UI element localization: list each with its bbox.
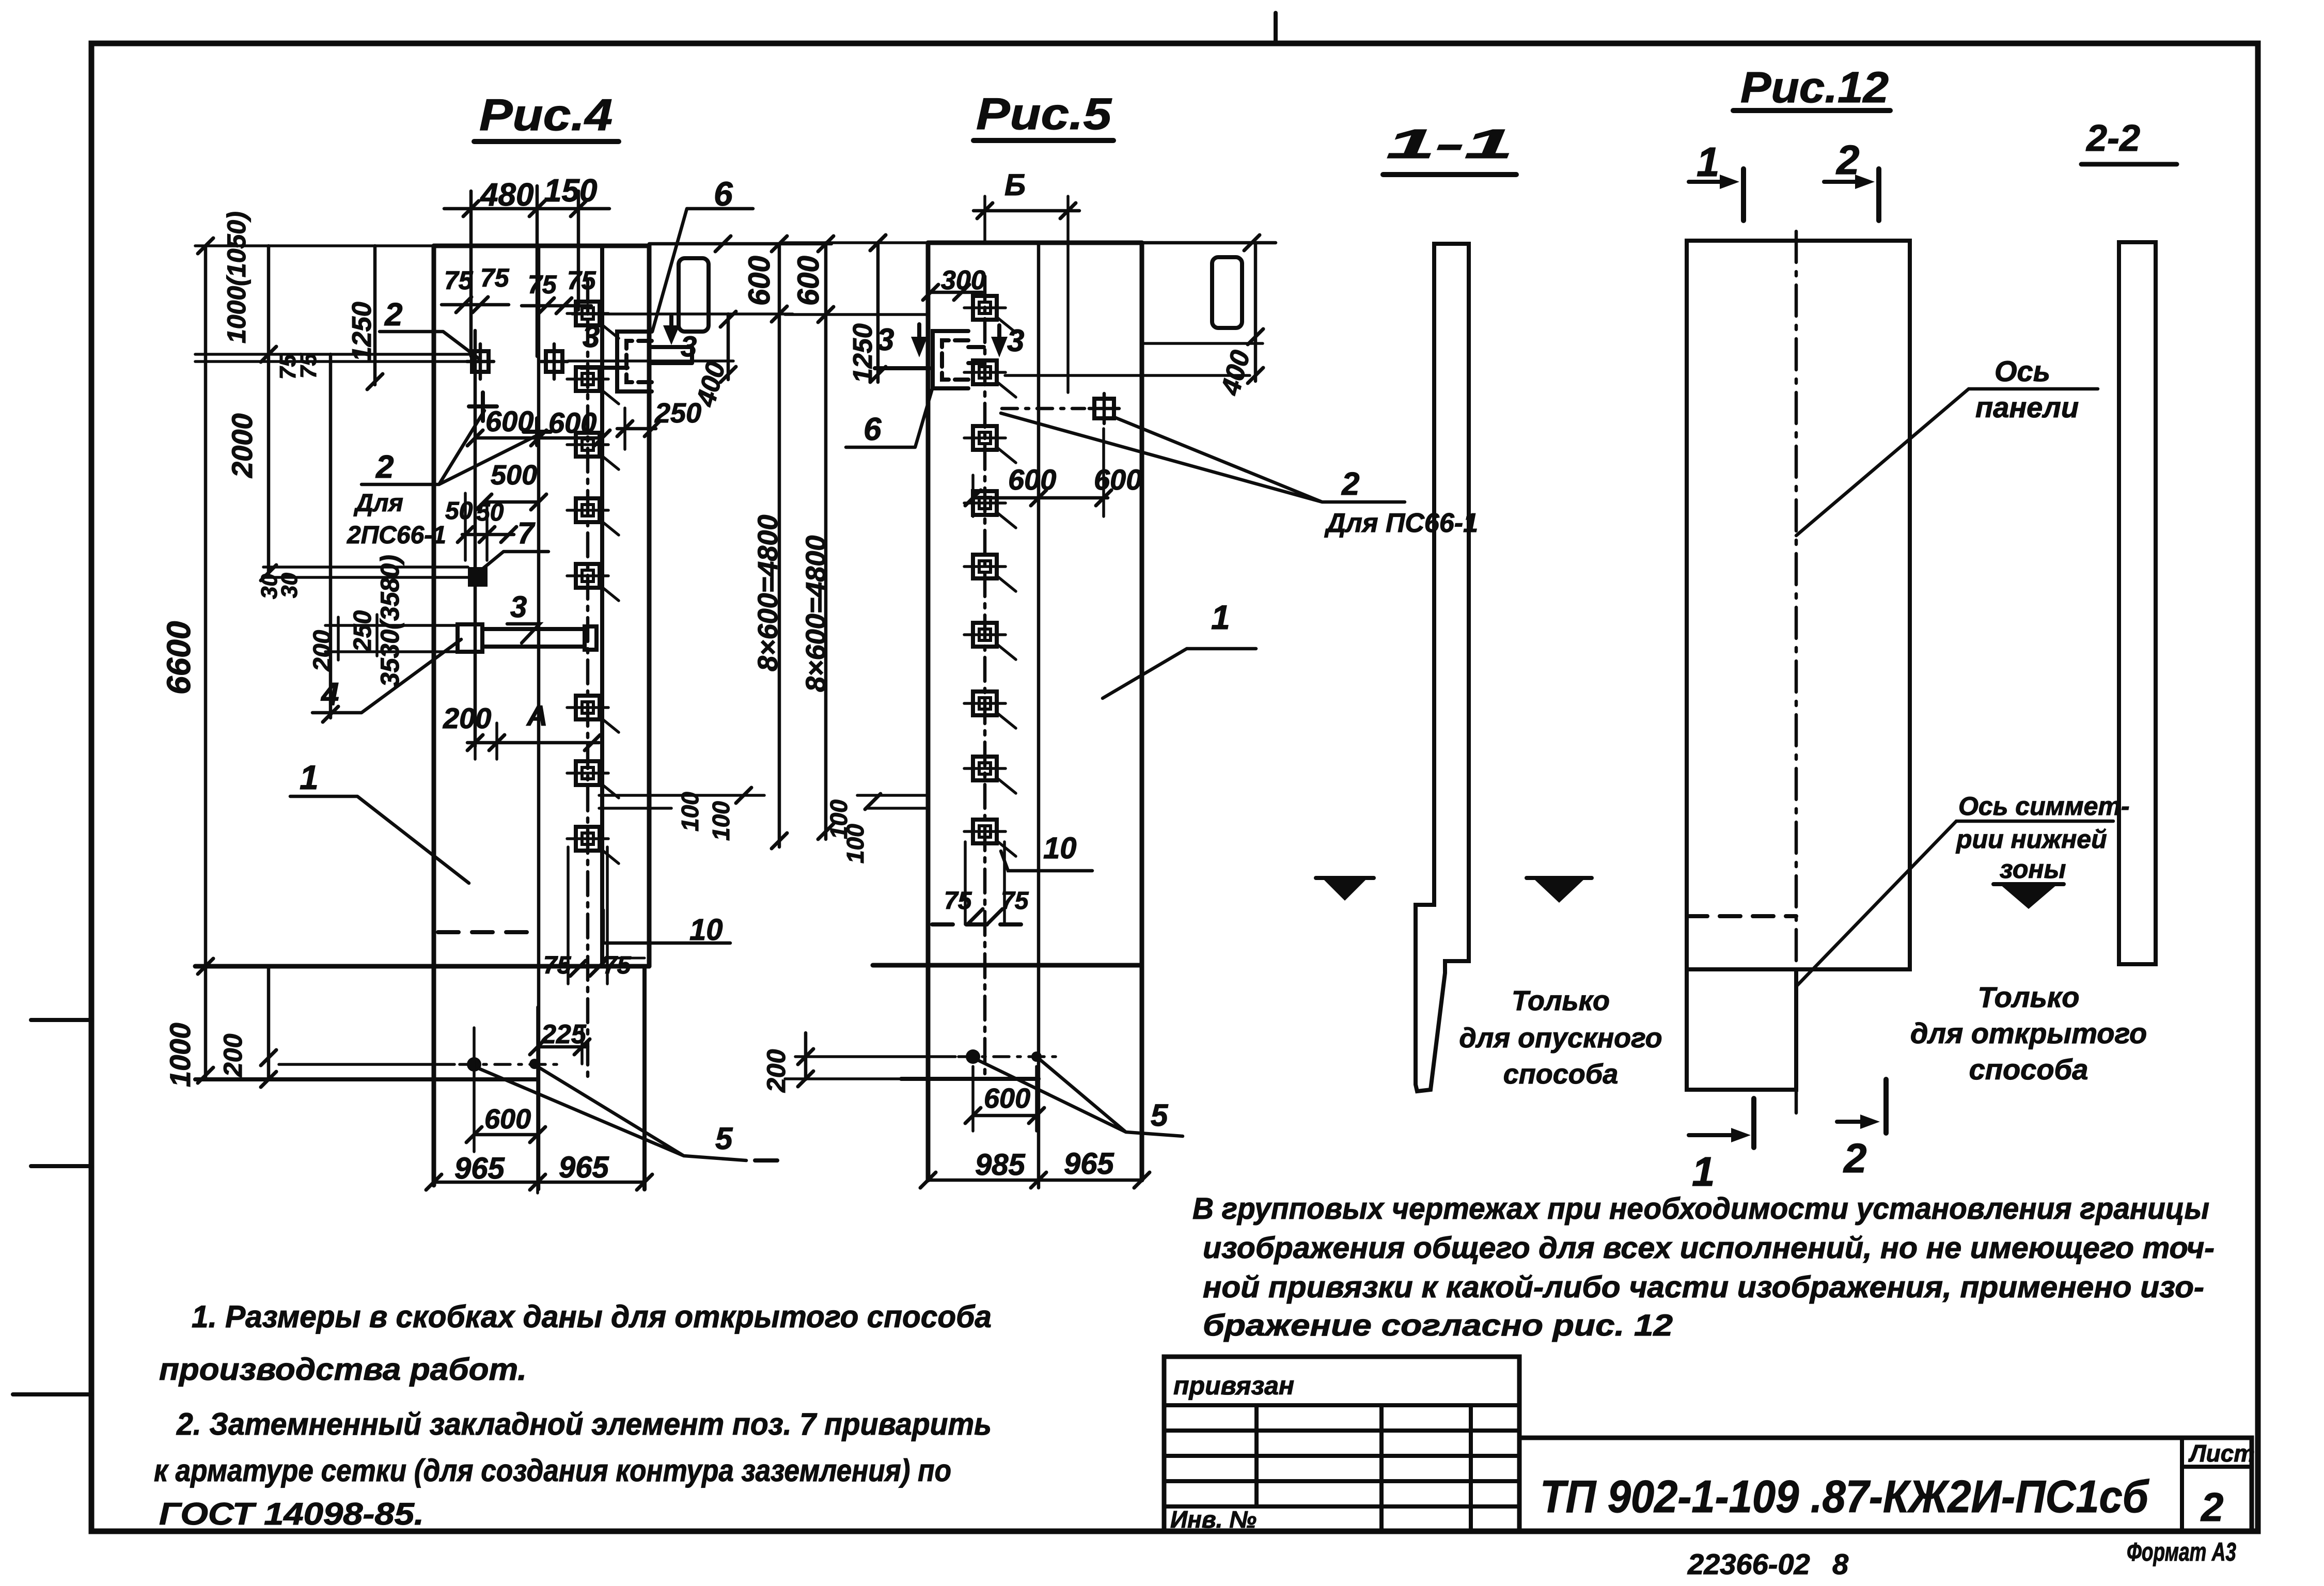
svg-text:480: 480 bbox=[479, 177, 533, 213]
svg-text:производства работ.: производства работ. bbox=[159, 1352, 527, 1387]
level line -600 bbox=[572, 312, 793, 316]
svg-text:2: 2 bbox=[2200, 1484, 2223, 1530]
svg-text:Рис.5: Рис.5 bbox=[976, 89, 1112, 139]
fig4 element 7 black square bbox=[468, 567, 488, 587]
fold mark left 3 bbox=[13, 1392, 91, 1396]
svg-text:75: 75 bbox=[528, 270, 557, 299]
svg-text:панели: панели bbox=[1975, 391, 2079, 423]
75 75 bottom bbox=[543, 952, 632, 979]
svg-text:рии нижней: рии нижней bbox=[1955, 825, 2107, 854]
svg-text:600: 600 bbox=[743, 256, 776, 306]
fig4 ground line bbox=[195, 964, 649, 969]
600 bbox=[984, 1083, 1030, 1114]
top edge dim extension right bbox=[649, 242, 831, 246]
section 2-2 profile bbox=[2119, 242, 2156, 964]
fig4 slot opening bbox=[679, 258, 709, 332]
fig5 foundation level line bbox=[901, 1077, 1039, 1081]
svg-text:Для: Для bbox=[353, 490, 403, 517]
fold mark left 1 bbox=[31, 1018, 91, 1022]
fig5 left dims bbox=[785, 235, 1029, 924]
100 100 right bbox=[599, 795, 764, 808]
fold mark left 2 bbox=[31, 1164, 91, 1168]
svg-text:Рис.12: Рис.12 bbox=[1740, 63, 1889, 112]
svg-text:Только: Только bbox=[1512, 985, 1610, 1016]
svg-text:22366-02: 22366-02 bbox=[1687, 1548, 1810, 1580]
8x600=4800 bbox=[752, 515, 783, 671]
svg-text:Для ПС66-1: Для ПС66-1 bbox=[1324, 508, 1478, 538]
pos 4 bbox=[320, 677, 339, 712]
labels 75x4 bbox=[444, 263, 596, 299]
svg-text:1000: 1000 bbox=[164, 1023, 196, 1087]
svg-text:изображения общего для всех ис: изображения общего для всех исполнений, … bbox=[1203, 1231, 2215, 1265]
svg-text:привязан: привязан bbox=[1173, 1371, 1294, 1400]
400 bbox=[727, 314, 730, 380]
text only for open method bbox=[1910, 981, 2147, 1086]
svg-text:1: 1 bbox=[1211, 598, 1230, 636]
svg-text:600: 600 bbox=[1008, 463, 1056, 496]
fig5 slot opening bbox=[1212, 257, 1242, 328]
fig5 panel outline bbox=[928, 241, 1142, 245]
svg-text:Формат А3: Формат А3 bbox=[2127, 1537, 2236, 1566]
svg-text:для открытого: для открытого bbox=[1910, 1017, 2147, 1049]
fig5 dims top bbox=[923, 168, 1276, 399]
500 bbox=[491, 460, 537, 491]
svg-text:для опускного: для опускного bbox=[1459, 1023, 1662, 1054]
pos 7 bbox=[517, 516, 536, 550]
fig4 inner verticals bbox=[537, 246, 541, 966]
svg-text:600: 600 bbox=[548, 406, 596, 439]
svg-text:2: 2 bbox=[375, 449, 394, 485]
fig4 top anchor plates bbox=[467, 344, 494, 379]
fig5 ground line bbox=[873, 963, 1142, 968]
fig12 centerline bbox=[1795, 231, 1798, 1113]
fig4 panel outline bbox=[434, 244, 649, 248]
svg-text:4: 4 bbox=[320, 677, 339, 712]
svg-text:2000: 2000 bbox=[226, 413, 258, 478]
fig4 element 6 C-shape bbox=[617, 332, 692, 391]
svg-text:8×600=4800: 8×600=4800 bbox=[800, 536, 831, 692]
svg-text:200: 200 bbox=[443, 702, 491, 734]
svg-text:1000(1050): 1000(1050) bbox=[222, 211, 251, 343]
section 2-2 title bbox=[2085, 118, 2140, 159]
250 bbox=[654, 398, 701, 429]
svg-text:2-2: 2-2 bbox=[2085, 118, 2140, 159]
leader 5 bbox=[715, 1121, 733, 1156]
fig5 inner verticals bbox=[1037, 243, 1041, 1188]
600 vertical bbox=[778, 244, 781, 847]
svg-text:10: 10 bbox=[1043, 831, 1077, 865]
600 bbox=[484, 1104, 531, 1135]
svg-text:600: 600 bbox=[1094, 463, 1142, 496]
fig12 section mark 2 bottom bbox=[1837, 1120, 1865, 1124]
svg-text:2: 2 bbox=[1341, 466, 1359, 502]
section 1-1 profile bbox=[1416, 244, 1469, 1091]
axis symmetry leader bbox=[1796, 821, 2113, 986]
svg-text:2: 2 bbox=[1843, 1135, 1867, 1181]
fold mark top bbox=[1274, 13, 1278, 43]
fig5 section 3 arrows bbox=[875, 322, 1024, 368]
level lines right bbox=[1005, 343, 1263, 375]
svg-text:6600: 6600 bbox=[160, 621, 197, 695]
fig5 600 600 dim bbox=[965, 429, 1142, 516]
fig12 title bbox=[1740, 63, 1889, 112]
75 75 rotated left bbox=[275, 353, 321, 380]
axis panel leader bbox=[1796, 389, 2098, 536]
svg-text:985: 985 bbox=[975, 1148, 1026, 1182]
leader 5 bbox=[1151, 1098, 1169, 1133]
svg-text:В групповых чертежах при необх: В групповых чертежах при необходимости у… bbox=[1192, 1192, 2209, 1226]
300 bbox=[941, 265, 986, 295]
fig12 section mark 2 top bbox=[1835, 137, 1860, 183]
600 600 bbox=[485, 405, 596, 439]
svg-text:5: 5 bbox=[1151, 1098, 1169, 1133]
svg-text:ной привязки к какой-либо част: ной привязки к какой-либо части изображе… bbox=[1203, 1270, 2204, 1304]
fig4 dashed line above ground bbox=[438, 930, 535, 934]
400 dim right bbox=[1254, 244, 1258, 381]
svg-text:2: 2 bbox=[384, 297, 402, 333]
svg-text:ТП 902-1-109 .87-КЖ2И-ПС1сб: ТП 902-1-109 .87-КЖ2И-ПС1сб bbox=[1540, 1471, 2149, 1522]
svg-text:75: 75 bbox=[567, 266, 596, 295]
svg-text:200: 200 bbox=[218, 1033, 247, 1077]
svg-text:способа: способа bbox=[1503, 1059, 1619, 1090]
fig4 foundation level line bbox=[195, 1077, 538, 1081]
100 100 left bbox=[857, 795, 928, 808]
fig12 section mark 1 top bbox=[1697, 139, 1720, 185]
svg-text:1: 1 bbox=[1697, 139, 1720, 185]
svg-text:1250: 1250 bbox=[347, 302, 377, 362]
svg-text:3: 3 bbox=[1007, 323, 1024, 358]
fig5 extra anchor square bbox=[1002, 394, 1119, 423]
svg-text:75: 75 bbox=[444, 266, 474, 295]
fig5 pos 10 bbox=[1001, 831, 1092, 871]
svg-text:50: 50 bbox=[445, 497, 473, 525]
svg-text:1. Размеры в скобках даны для: 1. Размеры в скобках даны для открытого … bbox=[192, 1299, 992, 1334]
fig5 anchor squares column bbox=[964, 296, 1016, 856]
svg-text:50: 50 bbox=[476, 499, 504, 526]
svg-text:600: 600 bbox=[484, 1104, 531, 1135]
ground triangle right bbox=[1533, 878, 1585, 903]
svg-text:2. Затемненный закладной элеме: 2. Затемненный закладной элемент поз. 7 … bbox=[176, 1407, 992, 1441]
fig5 dashed line above ground bbox=[932, 922, 1033, 927]
svg-text:100: 100 bbox=[708, 801, 734, 841]
fig4 anchor squares column bbox=[567, 302, 619, 863]
pos 2 top bbox=[384, 297, 402, 333]
svg-text:965: 965 bbox=[559, 1151, 609, 1184]
fig12 dashed lower zone line bbox=[1687, 914, 1796, 918]
225 bbox=[541, 1019, 587, 1049]
svg-text:500: 500 bbox=[491, 460, 537, 491]
ground triangle left bbox=[1322, 878, 1368, 901]
ground triangle fig12 bbox=[2000, 884, 2058, 909]
965 965 bbox=[454, 1151, 609, 1185]
dim Б top bbox=[1004, 168, 1026, 202]
svg-text:А: А bbox=[526, 699, 547, 732]
svg-text:Только: Только bbox=[1978, 981, 2080, 1013]
svg-text:Ось: Ось bbox=[1995, 355, 2050, 387]
top edge dim extension bbox=[1142, 241, 1276, 245]
svg-text:Лист: Лист bbox=[2188, 1440, 2255, 1467]
main title bar bbox=[1519, 1438, 2252, 1531]
svg-text:6: 6 bbox=[863, 412, 882, 447]
svg-text:к арматуре сетки (для создания: к арматуре сетки (для создания контура з… bbox=[154, 1453, 951, 1488]
fig4 cross marks pos2 bbox=[469, 392, 551, 445]
pos 1 bbox=[300, 758, 319, 796]
svg-text:5: 5 bbox=[715, 1121, 733, 1156]
fig12 lower zone part bbox=[1687, 969, 1796, 1090]
pos 6 bbox=[714, 175, 733, 213]
10 leader bbox=[689, 913, 723, 947]
svg-text:75: 75 bbox=[480, 263, 510, 292]
svg-text:965: 965 bbox=[454, 1152, 505, 1185]
985 965 bbox=[975, 1147, 1114, 1182]
svg-text:600: 600 bbox=[984, 1083, 1030, 1114]
small table bbox=[1164, 1357, 1519, 1531]
fig4 section 3 arrow bbox=[581, 316, 697, 368]
svg-text:250: 250 bbox=[349, 610, 376, 652]
svg-text:Ось симмет-: Ось симмет- bbox=[1958, 792, 2130, 821]
fig5 pos 2 leader bbox=[1001, 413, 1478, 538]
fig5 element 6 C-shape bbox=[933, 331, 984, 388]
75 75 bottom bbox=[944, 887, 1029, 915]
svg-text:7: 7 bbox=[517, 516, 536, 550]
svg-text:1250: 1250 bbox=[848, 323, 878, 383]
svg-text:Б: Б bbox=[1004, 168, 1026, 202]
svg-text:75: 75 bbox=[944, 887, 972, 915]
svg-text:8×600=4800: 8×600=4800 bbox=[752, 515, 783, 671]
svg-text:225: 225 bbox=[541, 1019, 587, 1049]
svg-text:150: 150 bbox=[544, 173, 597, 209]
dim 480/150 bbox=[471, 186, 578, 356]
200 A bbox=[443, 699, 547, 734]
svg-text:зоны: зоны bbox=[2000, 855, 2066, 884]
svg-text:Инв. №: Инв. № bbox=[1170, 1506, 1257, 1533]
sheet box bbox=[2180, 1438, 2184, 1531]
anchor bolts bbox=[467, 1057, 481, 1072]
svg-text:75: 75 bbox=[296, 353, 321, 379]
svg-text:8: 8 bbox=[1832, 1548, 1849, 1580]
svg-text:3: 3 bbox=[681, 330, 697, 363]
50 50 bbox=[445, 497, 504, 526]
pos 3 bbox=[510, 590, 527, 624]
svg-text:1-1: 1-1 bbox=[1386, 121, 1513, 167]
section 1-1 title bbox=[1386, 121, 1513, 167]
svg-text:способа: способа bbox=[1969, 1053, 2089, 1086]
svg-text:3530(3580): 3530(3580) bbox=[375, 555, 404, 687]
fig5 pos 1 leader bbox=[1103, 598, 1256, 698]
svg-text:1: 1 bbox=[300, 758, 319, 796]
stamp numbers below bbox=[1687, 1548, 1849, 1580]
svg-text:600: 600 bbox=[792, 256, 825, 306]
svg-text:250: 250 bbox=[654, 398, 701, 429]
svg-text:ГОСТ 14098-85.: ГОСТ 14098-85. bbox=[159, 1497, 424, 1531]
fig5 title bbox=[976, 89, 1112, 139]
svg-text:965: 965 bbox=[1064, 1147, 1114, 1181]
svg-text:3: 3 bbox=[510, 590, 527, 624]
text only for lowering method bbox=[1459, 985, 1662, 1090]
fig12 section mark 1 bottom bbox=[1689, 1133, 1736, 1137]
svg-text:бражение согласно рис. 12: бражение согласно рис. 12 bbox=[1203, 1309, 1673, 1342]
fig4 element 4 bar bbox=[458, 624, 596, 652]
fig12 panel rect bbox=[1687, 241, 1910, 969]
svg-text:Рис.4: Рис.4 bbox=[479, 90, 613, 140]
svg-text:1: 1 bbox=[1692, 1149, 1715, 1195]
svg-text:2ПС66-1: 2ПС66-1 bbox=[347, 522, 446, 549]
fig5 bottom dims bbox=[762, 1033, 1183, 1188]
svg-text:3: 3 bbox=[583, 319, 600, 354]
svg-text:100: 100 bbox=[677, 792, 703, 831]
svg-text:600: 600 bbox=[485, 405, 533, 437]
fig5 pos 6 label bbox=[846, 387, 933, 447]
200 / 250 rotated bbox=[309, 610, 376, 672]
svg-text:200: 200 bbox=[762, 1049, 791, 1093]
pos 2 mid bbox=[347, 449, 446, 549]
svg-text:100: 100 bbox=[842, 824, 869, 863]
fig4 title bbox=[479, 90, 613, 140]
30 30 rotated bbox=[257, 573, 302, 599]
